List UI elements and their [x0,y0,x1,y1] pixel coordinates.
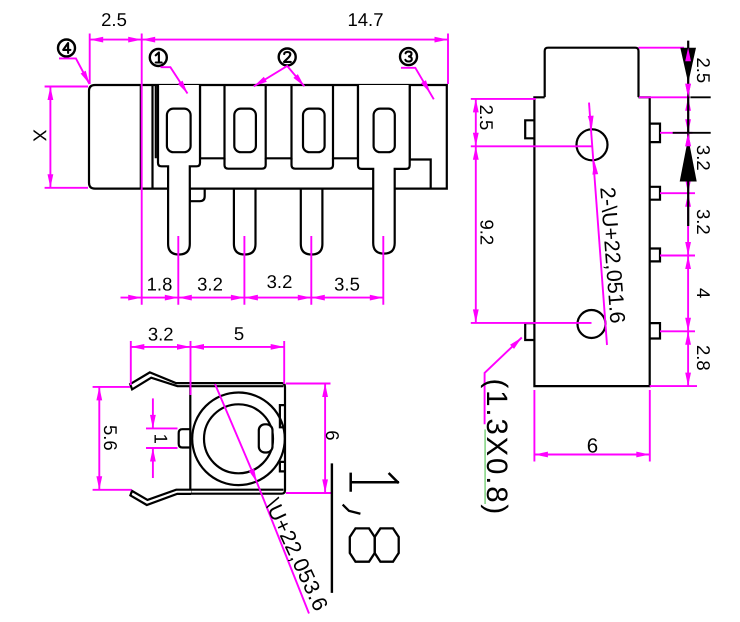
pin 3 [301,189,323,255]
svg-text:6: 6 [322,430,343,440]
right tab B [650,187,660,200]
leader arrows at upper hole [588,116,595,130]
top dim line 3.2 / 5 [131,346,284,348]
5.6 ext top [93,386,130,388]
slot between tab1 and tab2 [200,85,225,158]
leader line diameter 3.6 [215,384,257,482]
front view body outline [89,85,447,189]
svg-text:6: 6 [587,435,598,458]
leader line through holes [589,103,607,345]
1 dim arrows [150,415,156,429]
terminal tab1 with pin 1 [158,85,200,255]
1 dim ext bottom [146,447,178,449]
6 dim line right [324,384,326,493]
X dim line [49,87,51,188]
tab2 lower edge [225,158,266,168]
left bump lower [525,323,534,340]
svg-text:3.2: 3.2 [693,209,714,235]
hole in tab1 [167,109,191,153]
bottom 6 ext right [649,390,651,462]
right tab C [650,249,660,262]
svg-text:5: 5 [234,323,244,344]
black vertical line next to 1,8 [331,463,333,593]
svg-text:2.5: 2.5 [476,105,497,131]
extension line right of 14.7 dim [447,34,449,85]
end view outer body [190,383,285,494]
leader of circled 3 [401,68,434,100]
big text 1,8 drawn as strokes [344,474,399,562]
side view main body [534,97,649,386]
svg-text:1.8: 1.8 [147,274,173,295]
right ext y=97.3 [639,96,690,98]
svg-text:3.2: 3.2 [693,145,714,171]
callout circled 3 [400,48,417,65]
left dim arrows [473,99,479,113]
black ext stub y=97.3 [690,96,710,98]
inner circle [204,404,273,473]
5.6 dim line [98,387,100,490]
right ext y=193.2 [660,192,695,194]
5.6 arrows [96,387,102,401]
inner bottom line [190,489,283,491]
pin3 extension line [310,236,312,305]
right ext y=47.7 [639,47,685,49]
outer circle [192,393,285,486]
svg-text:3.5: 3.5 [334,274,360,295]
leaders of circled 2 [254,66,304,86]
svg-text:1: 1 [150,434,171,444]
slot between tab3 and tab4 [333,85,358,158]
ext line step y=98.9 [471,98,536,100]
arrows of X dim [48,87,54,101]
svg-text:X: X [29,129,50,141]
front view dimensions (magenta) [45,34,448,305]
callout circled 2 [279,49,296,66]
big black triangle upper [680,48,696,83]
body inner vertical line x=152.5 [151,85,153,189]
ext line to upper circle center [471,145,592,147]
inner top line [190,385,283,387]
hole in tab3 [303,109,325,153]
svg-text:5.6: 5.6 [100,425,121,451]
top spring arm [130,372,191,389]
right edge mark upper [280,405,285,427]
mounting bump below body [190,189,205,202]
svg-text:3.2: 3.2 [197,274,223,295]
svg-text:9.2: 9.2 [477,220,498,246]
bottom 6 dim line [534,454,649,456]
right ext y=331.3 [660,330,695,332]
big black triangle lower [680,138,697,182]
svg-text:4: 4 [693,288,714,298]
black ext stub y=132.8 [673,132,711,134]
tab3 lower edge [292,158,334,168]
svg-text:3.2: 3.2 [148,324,174,345]
1 dim line below [152,448,154,478]
arrows of dim 14.7 [142,37,156,43]
end view dimensions (magenta) [93,341,332,614]
hole circle lower [578,310,606,338]
6 ext bottom [286,492,332,494]
left bump upper [525,120,534,138]
slot between tab2 and tab3 [266,85,292,158]
ext line to lower circle center [471,322,592,324]
right dim line [687,48,689,386]
right tab A [650,124,660,143]
svg-text:3.2: 3.2 [267,271,293,292]
bottom 6 arrows [534,452,548,458]
right dim arrows [685,48,691,62]
right ext y=132.8 [660,132,692,134]
svg-text:2.8: 2.8 [693,345,714,371]
pin 2 [234,189,256,255]
1 dim line above [152,398,154,428]
1 dim ext top [146,427,178,429]
6 dim arrows [322,384,328,398]
X dim extension top [45,86,88,88]
bottom spring arm [130,490,191,505]
hole in tab2 [234,109,256,153]
long extension line x=141.7 [141,34,143,305]
left bump of end view [179,429,191,447]
body inner vertical line x=140.8 [140,85,142,189]
notch in inner circle [259,424,273,452]
callout circled 1 [150,49,167,66]
extension line left of 2.5 dim [89,34,91,85]
hole in tab4 [374,109,395,153]
svg-text:(1.3X0.8): (1.3X0.8) [480,379,513,517]
arrows of dim 2.5 top [90,37,104,43]
leader arrow on outer circle [249,469,260,484]
green highlight line [484,429,486,504]
ext x=190.5 top dims [190,341,192,395]
bottom chain dim line [121,297,384,299]
hole circle upper [577,129,608,160]
right edge mark lower [280,462,285,472]
terminal tab4 with pin 4 [358,85,410,254]
right ext y=386.1 [650,385,697,387]
callout circled 4 [58,40,75,57]
arrows of chain dims [128,295,142,301]
5.6 ext bottom [93,489,132,491]
leader of (1.3X0.8) [485,338,522,425]
pin4 extension line [382,236,384,305]
dim line 2.5 and 14.7 [90,39,448,41]
svg-text:2.5: 2.5 [693,58,714,84]
ext x=284.2 top dims [283,341,285,384]
body inner vertical line x=155.8 [155,85,157,158]
top dim arrows [131,344,145,350]
ext x=130.8 top dims [130,341,132,385]
side view top block [545,48,639,98]
right tab D [650,323,660,338]
right ext y=255.5 [660,255,695,257]
svg-text:2.5: 2.5 [101,9,127,30]
(1.3X0.8) leader arrow [510,335,524,349]
6 ext top [286,383,331,385]
magenta arrows redrawn over black triangles [685,48,691,62]
bottom 6 ext left [533,390,535,462]
black overlay dim elements right side [673,41,711,226]
black dim line segment [687,41,689,226]
svg-text:14.7: 14.7 [347,9,383,30]
pin2 extension line [243,236,245,305]
side view dimensions (magenta) [471,48,697,462]
leader of circled 4 [59,58,90,84]
left dim line [475,99,477,323]
pin1 extension line [177,236,179,305]
X dim extension bottom [45,187,88,189]
leader of circled 1 [161,67,188,93]
right end notch [410,85,431,189]
